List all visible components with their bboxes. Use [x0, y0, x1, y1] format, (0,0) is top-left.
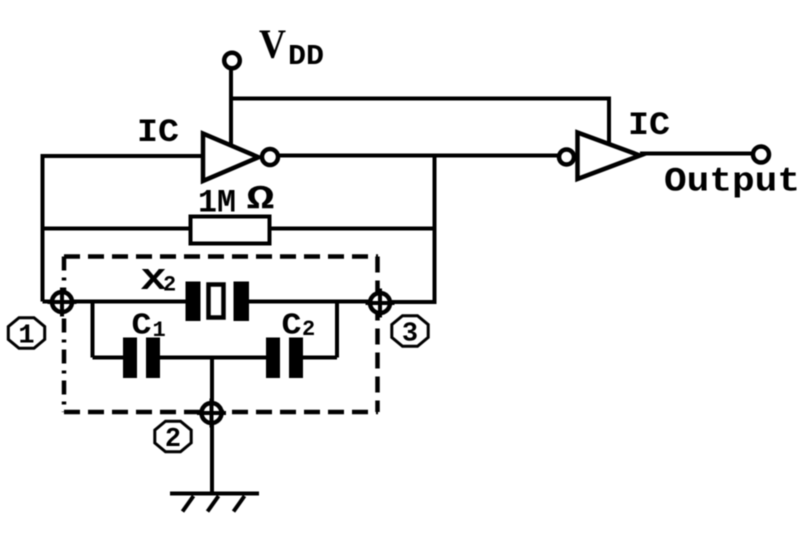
- svg-text:Ω: Ω: [247, 181, 275, 218]
- svg-text:DD: DD: [288, 40, 324, 73]
- svg-text:C: C: [282, 309, 302, 344]
- svg-text:2: 2: [302, 317, 315, 342]
- svg-text:C: C: [132, 309, 152, 344]
- svg-text:IC: IC: [628, 107, 670, 144]
- svg-text:1: 1: [18, 322, 34, 352]
- svg-text:3: 3: [402, 320, 418, 350]
- svg-text:V: V: [259, 21, 286, 67]
- svg-text:1M: 1M: [198, 185, 236, 222]
- svg-text:IC: IC: [137, 114, 179, 151]
- svg-text:Output: Output: [664, 164, 800, 202]
- svg-text:2: 2: [163, 273, 176, 298]
- svg-text:2: 2: [165, 425, 181, 455]
- svg-text:1: 1: [153, 318, 166, 343]
